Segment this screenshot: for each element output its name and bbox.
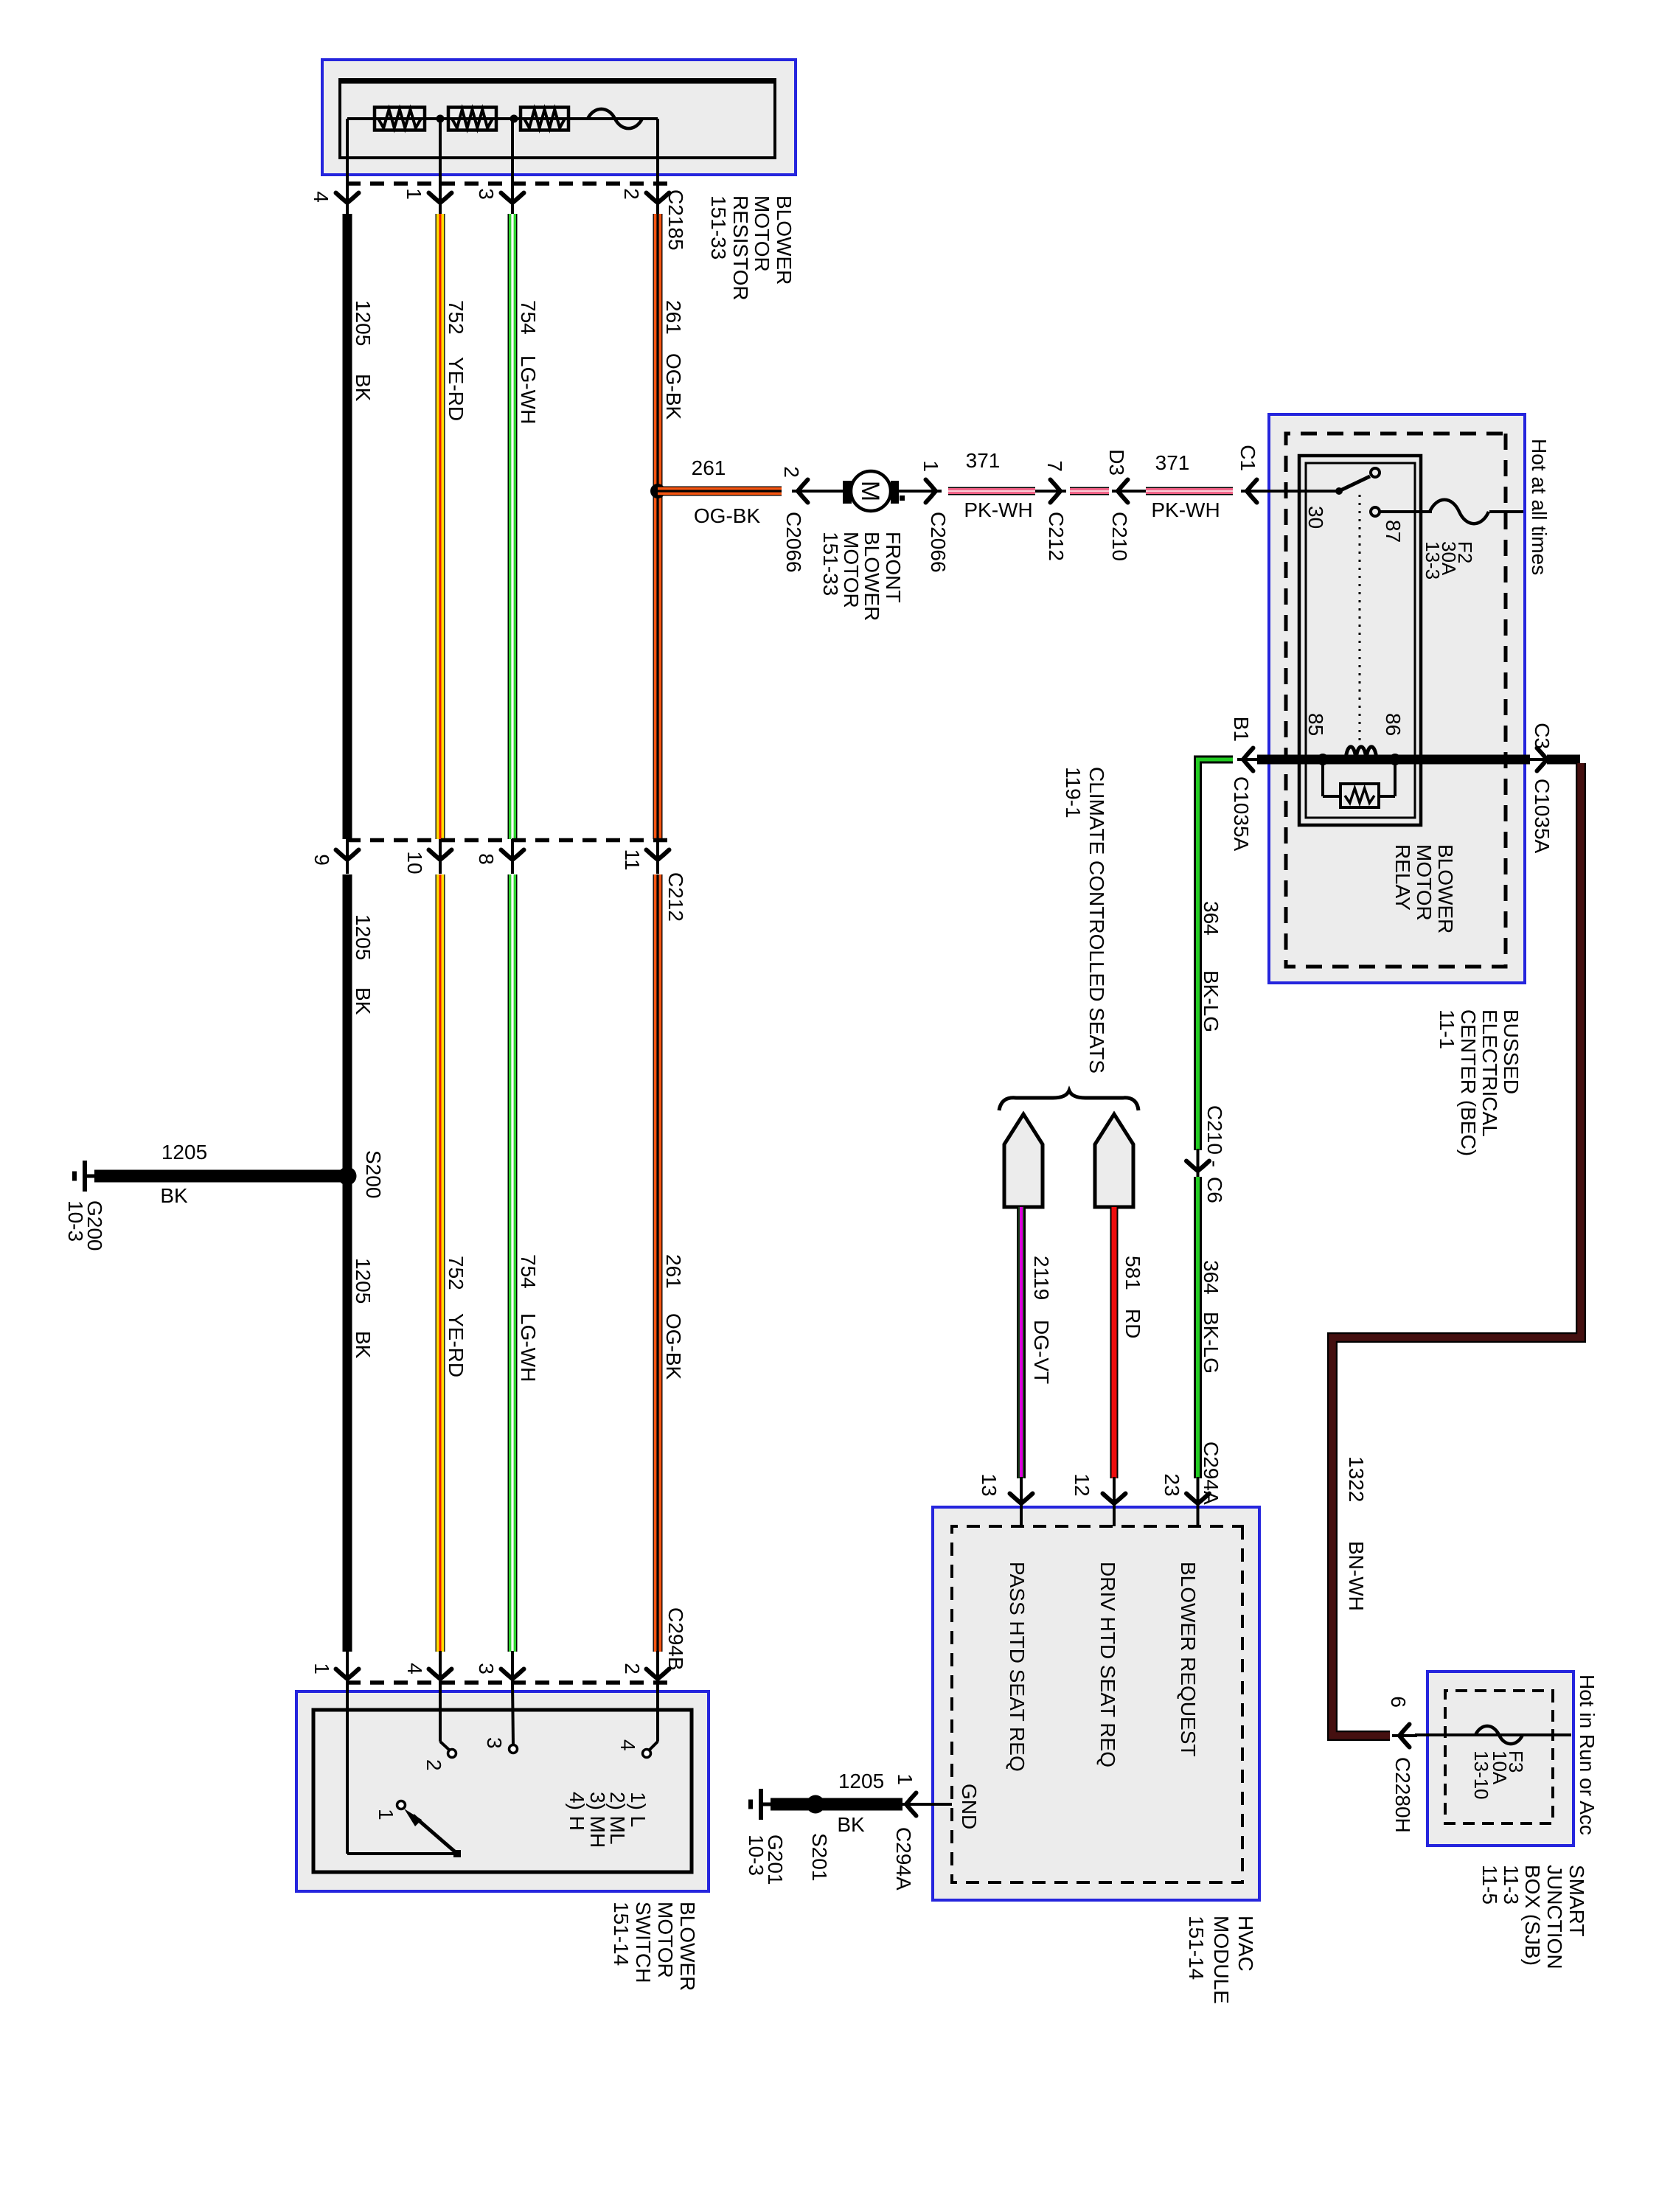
svg-text:CENTER (BEC): CENTER (BEC) <box>1457 1009 1480 1156</box>
svg-text:151-33: 151-33 <box>707 195 730 260</box>
svg-text:261: 261 <box>692 456 726 479</box>
svg-text:Hot in Run or Acc: Hot in Run or Acc <box>1576 1674 1599 1835</box>
svg-text:C210 -: C210 - <box>1203 1105 1226 1167</box>
svg-text:10-3: 10-3 <box>745 1834 768 1876</box>
svg-text:10-3: 10-3 <box>64 1200 87 1242</box>
svg-text:BK: BK <box>352 1331 375 1359</box>
svg-text:1205: 1205 <box>838 1770 884 1792</box>
svg-text:BK-LG: BK-LG <box>1200 970 1222 1032</box>
svg-text:C1035A: C1035A <box>1531 779 1554 854</box>
svg-text:1: 1 <box>403 188 425 200</box>
svg-text:C3: C3 <box>1531 723 1554 749</box>
svg-text:BK-LG: BK-LG <box>1200 1312 1222 1374</box>
svg-text:MOTOR: MOTOR <box>1413 844 1436 921</box>
svg-text:SWITCH: SWITCH <box>632 1902 655 1983</box>
svg-text:2: 2 <box>621 1663 644 1674</box>
svg-text:1205: 1205 <box>352 1258 375 1304</box>
svg-text:YE-RD: YE-RD <box>445 357 467 421</box>
svg-text:DG-VT: DG-VT <box>1030 1320 1053 1384</box>
svg-text:CLIMATE CONTROLLED SEATS: CLIMATE CONTROLLED SEATS <box>1085 767 1108 1074</box>
svg-text:11-1: 11-1 <box>1436 1009 1458 1049</box>
svg-text:S201: S201 <box>808 1833 831 1881</box>
svg-text:11: 11 <box>621 849 644 870</box>
svg-text:YE-RD: YE-RD <box>445 1313 467 1377</box>
svg-text:C210: C210 <box>1108 512 1131 561</box>
svg-text:1: 1 <box>919 460 942 472</box>
svg-text:261: 261 <box>662 1254 685 1289</box>
svg-text:B1: B1 <box>1230 717 1253 742</box>
svg-text:1: 1 <box>310 1663 333 1674</box>
svg-text:BK: BK <box>352 987 375 1015</box>
svg-text:BLOWER REQUEST: BLOWER REQUEST <box>1177 1562 1200 1756</box>
svg-text:OG-BK: OG-BK <box>662 1313 685 1380</box>
svg-text:BK: BK <box>160 1184 188 1207</box>
svg-text:C1: C1 <box>1237 445 1259 471</box>
svg-text:3) MH: 3) MH <box>586 1792 609 1848</box>
svg-text:23: 23 <box>1161 1473 1183 1496</box>
svg-text:13-10: 13-10 <box>1470 1750 1492 1800</box>
svg-text:8: 8 <box>475 853 498 865</box>
svg-text:1205: 1205 <box>352 914 375 960</box>
svg-text:MOTOR: MOTOR <box>654 1902 677 1978</box>
svg-text:SMART: SMART <box>1565 1865 1588 1937</box>
svg-text:GND: GND <box>958 1784 981 1829</box>
svg-text:9: 9 <box>310 854 333 866</box>
svg-text:LG-WH: LG-WH <box>517 355 540 424</box>
svg-text:85: 85 <box>1304 713 1327 736</box>
svg-text:1) L: 1) L <box>627 1792 650 1827</box>
svg-text:119-1: 119-1 <box>1062 767 1085 818</box>
svg-text:S200: S200 <box>362 1150 385 1198</box>
svg-text:11-3: 11-3 <box>1500 1865 1523 1905</box>
svg-text:BN-WH: BN-WH <box>1345 1541 1368 1611</box>
svg-text:3: 3 <box>483 1737 506 1749</box>
svg-text:364: 364 <box>1200 1260 1222 1295</box>
svg-text:10: 10 <box>403 851 426 874</box>
svg-text:D3: D3 <box>1105 449 1128 476</box>
svg-text:BOX (SJB): BOX (SJB) <box>1521 1865 1544 1966</box>
svg-text:JUNCTION: JUNCTION <box>1543 1865 1566 1969</box>
svg-text:752: 752 <box>445 300 467 335</box>
svg-text:151-14: 151-14 <box>1185 1916 1208 1980</box>
svg-text:RESISTOR: RESISTOR <box>729 195 752 301</box>
svg-text:6: 6 <box>1387 1696 1410 1708</box>
svg-text:1205: 1205 <box>161 1141 207 1164</box>
svg-text:3: 3 <box>475 1663 498 1674</box>
svg-text:BK: BK <box>352 374 375 402</box>
svg-text:4: 4 <box>616 1739 639 1751</box>
svg-text:C2066: C2066 <box>782 512 805 573</box>
svg-text:261: 261 <box>662 300 685 335</box>
svg-text:MOTOR: MOTOR <box>840 532 863 608</box>
svg-text:4: 4 <box>310 191 333 203</box>
svg-text:151-14: 151-14 <box>610 1902 633 1966</box>
svg-text:BLOWER: BLOWER <box>860 532 883 621</box>
svg-text:MODULE: MODULE <box>1210 1916 1233 2004</box>
svg-text:BUSSED: BUSSED <box>1500 1009 1523 1094</box>
svg-text:C294A: C294A <box>892 1827 915 1891</box>
svg-text:2119: 2119 <box>1030 1256 1053 1300</box>
svg-text:1322: 1322 <box>1345 1456 1368 1502</box>
svg-text:FRONT: FRONT <box>882 532 905 602</box>
svg-text:2: 2 <box>620 188 643 200</box>
svg-text:HVAC: HVAC <box>1234 1916 1257 1972</box>
svg-text:C2280H: C2280H <box>1391 1757 1414 1833</box>
svg-text:BLOWER: BLOWER <box>773 195 796 285</box>
svg-text:13-3: 13-3 <box>1422 541 1444 580</box>
svg-text:BLOWER: BLOWER <box>676 1902 699 1991</box>
svg-text:RD: RD <box>1121 1309 1144 1338</box>
svg-text:Hot at all times: Hot at all times <box>1528 439 1551 575</box>
svg-text:2: 2 <box>780 466 803 478</box>
svg-text:OG-BK: OG-BK <box>662 353 685 420</box>
svg-text:4: 4 <box>403 1663 426 1674</box>
svg-text:12: 12 <box>1071 1473 1093 1496</box>
svg-text:BLOWER: BLOWER <box>1434 844 1457 933</box>
svg-text:C6: C6 <box>1203 1177 1226 1203</box>
svg-text:371: 371 <box>966 449 1001 472</box>
svg-text:BK: BK <box>837 1813 865 1836</box>
svg-text:7: 7 <box>1043 460 1066 472</box>
svg-text:11-5: 11-5 <box>1478 1865 1501 1905</box>
svg-text:PK-WH: PK-WH <box>964 498 1032 521</box>
svg-text:OG-BK: OG-BK <box>694 504 761 527</box>
svg-text:C294A: C294A <box>1200 1441 1222 1505</box>
svg-text:4) H: 4) H <box>566 1792 588 1831</box>
svg-text:3: 3 <box>475 188 498 200</box>
svg-text:C212: C212 <box>664 872 687 922</box>
svg-text:86: 86 <box>1382 713 1405 736</box>
svg-text:LG-WH: LG-WH <box>517 1313 540 1382</box>
svg-text:364: 364 <box>1200 901 1222 936</box>
svg-text:1: 1 <box>375 1809 397 1820</box>
svg-text:754: 754 <box>517 1254 540 1289</box>
svg-text:M: M <box>856 481 884 501</box>
svg-text:ELECTRICAL: ELECTRICAL <box>1478 1009 1501 1137</box>
svg-text:13: 13 <box>978 1473 1001 1496</box>
svg-text:RELAY: RELAY <box>1391 844 1414 911</box>
svg-text:DRIV HTD SEAT REQ: DRIV HTD SEAT REQ <box>1096 1562 1119 1767</box>
svg-text:1205: 1205 <box>352 300 375 346</box>
svg-text:C2066: C2066 <box>927 512 950 573</box>
svg-text:581: 581 <box>1121 1256 1144 1290</box>
svg-text:MOTOR: MOTOR <box>751 195 773 272</box>
svg-text:C212: C212 <box>1045 512 1068 561</box>
svg-text:1: 1 <box>894 1773 917 1785</box>
svg-text:752: 752 <box>445 1256 467 1290</box>
svg-text:2: 2 <box>422 1759 445 1771</box>
svg-text:C2185: C2185 <box>664 189 687 251</box>
svg-text:754: 754 <box>517 300 540 335</box>
svg-text:C1035A: C1035A <box>1230 776 1253 852</box>
svg-text:87: 87 <box>1382 520 1405 543</box>
svg-text:C294B: C294B <box>664 1607 687 1671</box>
svg-text:PASS HTD SEAT REQ: PASS HTD SEAT REQ <box>1006 1562 1029 1772</box>
svg-text:151-33: 151-33 <box>819 532 842 596</box>
svg-text:PK-WH: PK-WH <box>1151 498 1220 521</box>
svg-text:30: 30 <box>1304 506 1327 529</box>
svg-text:371: 371 <box>1155 451 1190 474</box>
